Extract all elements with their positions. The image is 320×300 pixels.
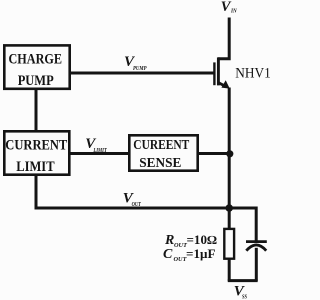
wire: V_OUT rail (from current limit down, right, to cap branch down) xyxy=(36,175,256,242)
svg-text:CURRENT: CURRENT xyxy=(5,137,67,153)
svg-text:CUREENT: CUREENT xyxy=(133,138,190,153)
junction dot at sense/rail xyxy=(226,150,233,157)
svg-text:LIMIT: LIMIT xyxy=(16,159,55,175)
svg-text:OUT: OUT xyxy=(132,201,142,208)
capacitor C_OUT xyxy=(246,242,267,282)
wire: source rail down to resistor xyxy=(228,88,231,229)
current limit block xyxy=(4,131,69,175)
current sense block xyxy=(129,135,197,171)
svg-text:IN: IN xyxy=(230,8,237,15)
wire: bottom rail xyxy=(228,279,258,282)
label V_SS xyxy=(234,284,248,300)
wire: sense to source rail xyxy=(197,152,230,155)
bottom lead xyxy=(255,248,258,281)
resistor R_OUT xyxy=(224,229,234,259)
wire: V_PUMP (charge pump to gate) xyxy=(69,72,214,75)
label V_OUT xyxy=(123,191,142,208)
wire: V_IN drain rail with drain stub xyxy=(218,18,229,59)
source diagonal with arrow xyxy=(218,83,226,87)
label V_PUMP xyxy=(124,54,147,72)
wire: V_LIMIT (current limit to sense) xyxy=(69,152,130,155)
label R_OUT = 10 ohm / C_OUT = 1uF xyxy=(163,233,217,263)
top plate xyxy=(246,240,267,243)
wire: resistor bottom lead xyxy=(228,260,231,282)
charge pump block xyxy=(4,45,69,89)
channel bar xyxy=(217,57,220,85)
svg-text:CHARGE: CHARGE xyxy=(9,51,63,67)
label V_LIMIT xyxy=(85,136,107,154)
svg-text:LIMIT: LIMIT xyxy=(93,147,108,154)
curved bottom plate xyxy=(246,245,266,251)
wire: charge pump to current limit xyxy=(35,89,38,132)
svg-text:=1μF: =1μF xyxy=(186,247,216,261)
svg-text:PUMP: PUMP xyxy=(133,65,147,72)
gate bar xyxy=(213,62,215,85)
svg-text:=10Ω: =10Ω xyxy=(187,233,218,247)
transistor NHV1 xyxy=(214,57,229,88)
svg-text:SS: SS xyxy=(242,293,247,300)
svg-text:NHV1: NHV1 xyxy=(235,66,270,82)
junction dot V_OUT x source rail xyxy=(225,204,233,212)
svg-text:R: R xyxy=(164,233,174,248)
label V_IN xyxy=(221,0,237,15)
svg-text:PUMP: PUMP xyxy=(18,73,54,89)
svg-text:C: C xyxy=(163,247,173,262)
svg-text:SENSE: SENSE xyxy=(139,156,181,171)
